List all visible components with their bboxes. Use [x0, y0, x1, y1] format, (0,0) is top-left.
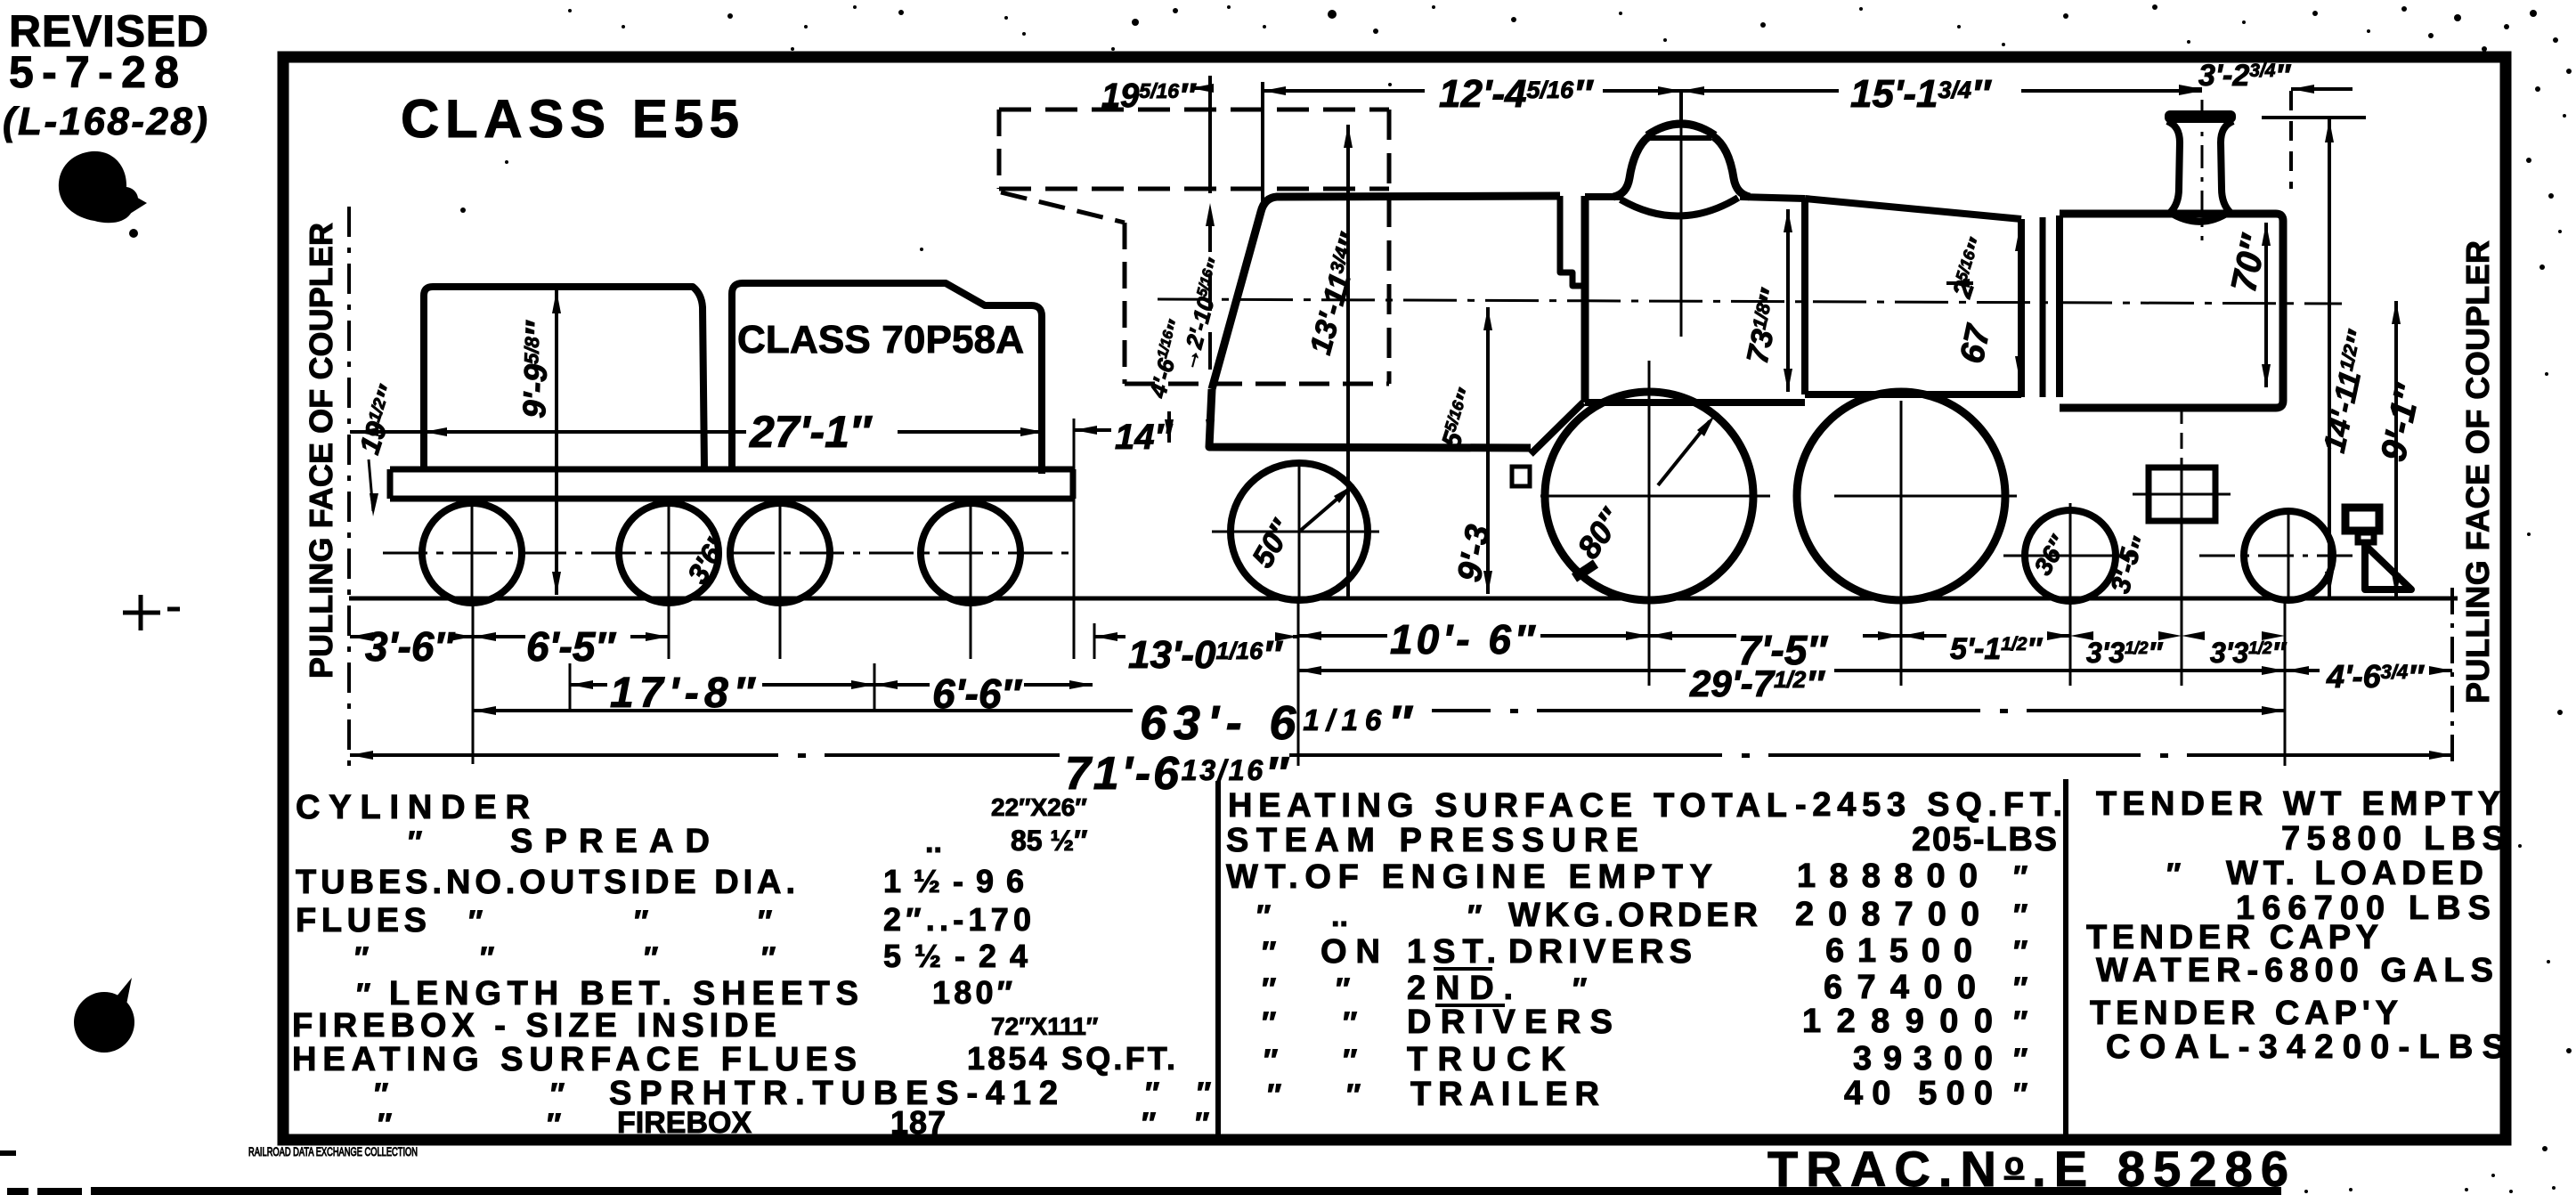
svg-text:WT.OF ENGINE EMPTY: WT.OF ENGINE EMPTY: [1226, 858, 1712, 896]
svg-text:1ST.: 1ST.: [1407, 933, 1496, 971]
scan speckle: [1663, 38, 1667, 42]
boiler bottom: [1805, 391, 2021, 398]
scan speckle: [853, 5, 857, 9]
row: 3-6 / 6-5 / 13-0 1/16: [350, 635, 365, 638]
smokebox outline: [2060, 214, 2283, 408]
table divider line 1: [1215, 781, 1221, 1140]
svg-text:36″: 36″: [2028, 531, 2073, 580]
svg-text:″: ″: [374, 1077, 388, 1111]
scan speckle: [2566, 69, 2572, 74]
tender body box 1: [424, 287, 704, 469]
extension line x=640: [569, 663, 572, 712]
scan speckle: [2152, 4, 2158, 10]
svg-text:TRAILER: TRAILER: [1410, 1076, 1599, 1113]
svg-text:″: ″: [2166, 858, 2181, 891]
svg-text:13'-01/16″: 13'-01/16″: [1128, 633, 1283, 677]
steam dome: [1613, 136, 1649, 197]
tapered boiler course top: [1805, 199, 2021, 219]
scan speckle: [2563, 114, 2566, 118]
svg-text:PULLING FACE OF COUPLER: PULLING FACE OF COUPLER: [303, 223, 339, 679]
svg-text:128900: 128900: [1802, 1003, 1993, 1040]
scan speckle: [1511, 17, 1516, 22]
driver wheel D2 80in: [1797, 392, 2005, 600]
svg-text:″: ″: [2013, 1005, 2027, 1039]
scan speckle: [2002, 43, 2005, 46]
svg-text:DRIVERS: DRIVERS: [1407, 1004, 1613, 1041]
extension line x=531: [472, 602, 475, 764]
svg-text:TENDER WT EMPTY: TENDER WT EMPTY: [2096, 785, 2500, 823]
tender wheel center line: [383, 552, 1077, 555]
svg-text:″: ″: [378, 1108, 392, 1142]
scan speckle: [1373, 28, 1378, 34]
scan speckle: [1432, 5, 1435, 9]
dome centerline: [1680, 119, 1683, 337]
svg-text:TRAC.No.E 85286: TRAC.No.E 85286: [1767, 1141, 2288, 1195]
svg-text:HEATING SURFACE FLUES: HEATING SURFACE FLUES: [292, 1041, 857, 1078]
svg-text:80″: 80″: [1570, 501, 1629, 565]
svg-text:14'-111/2″: 14'-111/2″: [2318, 327, 2377, 456]
smoke stack: [2165, 110, 2236, 123]
running board step to firebox: [1531, 402, 1583, 454]
scan speckle: [2312, 11, 2318, 16]
scan speckle: [1957, 25, 1961, 28]
scan speckle: [2401, 6, 2407, 12]
svg-text:″: ″: [2013, 935, 2027, 969]
ext line at cab rear slope top: [1208, 76, 1212, 156]
extension line x=2566: [2284, 602, 2287, 766]
scan speckle: [1388, 83, 1392, 86]
dim line dash-dot break: [2141, 751, 2187, 760]
svg-text:50″: 50″: [1246, 514, 1300, 573]
stack top ext line: [2262, 116, 2366, 119]
scan speckle: [2547, 960, 2550, 963]
scan speckle: [2063, 13, 2068, 19]
clearance taper dashed: [1001, 192, 1125, 223]
svg-text:″: ″: [634, 905, 648, 939]
svg-text:FIREBOX: FIREBOX: [617, 1106, 752, 1140]
svg-text:3'31/2″: 3'31/2″: [2210, 637, 2288, 669]
scan speckle: [505, 160, 508, 164]
tender wheel W3: [730, 503, 830, 603]
scan speckle: [1132, 19, 1139, 26]
dim 13ft-11 3/4 vertical: [1346, 125, 1350, 598]
scan speckle: [1004, 16, 1008, 20]
svg-text:71'-613/16″: 71'-613/16″: [1065, 748, 1289, 800]
pilot truck wheel 50in: [1231, 463, 1368, 600]
scan speckle: [2527, 532, 2531, 536]
underline for 1ST and 2ND: [1434, 967, 1492, 971]
scan speckle: [1328, 10, 1337, 19]
svg-text:TENDER CAPY: TENDER CAPY: [2086, 919, 2378, 956]
svg-text:-2453 SQ.FT.: -2453 SQ.FT.: [1795, 786, 2062, 824]
scan speckle: [2553, 37, 2558, 43]
stack centerline: [2201, 100, 2204, 240]
svg-text:15'-13/4″: 15'-13/4″: [1850, 72, 1992, 116]
dim 73 1/8 vertical: [1786, 209, 1790, 392]
svg-text:″: ″: [1256, 899, 1271, 933]
loco coupler face line (right): [2450, 588, 2454, 768]
scan speckle: [2465, 1188, 2468, 1191]
svg-text:55/16″: 55/16″: [1436, 386, 1483, 452]
svg-text:FLUES: FLUES: [296, 902, 427, 939]
svg-text:5'-11/2″: 5'-11/2″: [1950, 632, 2043, 666]
registration cross left margin: [123, 611, 160, 615]
svg-text:(L-168-28): (L-168-28): [3, 100, 207, 143]
border frame of drawing: [283, 57, 2506, 1140]
clearance pedestal dashed: [1123, 223, 1127, 384]
extension line x=1852: [1648, 602, 1651, 686]
tender body box 2 (CLASS 70P58A): [732, 283, 1042, 474]
scan speckle: [804, 25, 808, 28]
scan speckle: [2454, 14, 2461, 21]
80in radius arrow: [1658, 421, 1710, 485]
row: loco 10-6 / 7-5 / 5-1 1/2 / 3-3 1/2 x2: [1298, 634, 1387, 638]
svg-text:63'- 61/16″: 63'- 61/16″: [1140, 696, 1413, 750]
scan speckle: [1022, 32, 1026, 36]
svg-text:″: ″: [1262, 936, 1276, 970]
svg-text:COAL-34200-LBS: COAL-34200-LBS: [2106, 1028, 2505, 1066]
scan speckle: [2535, 86, 2540, 92]
svg-text:″: ″: [1467, 899, 1482, 933]
svg-text:731/8″: 731/8″: [1741, 286, 1790, 367]
svg-text:5½-24: 5½-24: [883, 938, 1028, 974]
svg-text:205-LBS: 205-LBS: [1912, 821, 2057, 858]
firebox bottom: [1585, 399, 1805, 406]
svg-text:180″: 180″: [932, 974, 1012, 1011]
svg-text:″: ″: [1197, 1077, 1211, 1110]
table divider line 2: [2063, 779, 2068, 1140]
svg-text:10'- 6″: 10'- 6″: [1390, 616, 1536, 663]
scan speckle: [1263, 25, 1266, 28]
svg-text:1854 SQ.FT.: 1854 SQ.FT.: [967, 1040, 1175, 1077]
svg-text:″: ″: [1336, 972, 1350, 1006]
lead truck wheel: [2244, 511, 2333, 600]
svg-text:″: ″: [1142, 1107, 1156, 1141]
dim 2 5/16 and 67 vertical: [2018, 228, 2021, 379]
dim 9ft-9 5/8 vertical: [555, 290, 558, 595]
svg-text:25/16″: 25/16″: [1947, 235, 1995, 303]
svg-text:″: ″: [761, 941, 776, 975]
svg-text:TRUCK: TRUCK: [1407, 1041, 1566, 1078]
dim line dash-dot break: [1491, 706, 1537, 715]
tender coupler face line (left): [347, 207, 351, 768]
svg-text:″: ″: [2013, 1077, 2027, 1111]
extension line x=2450: [2181, 552, 2183, 686]
row: 71-6 13/16: [350, 753, 1060, 757]
scan speckle: [2518, 844, 2522, 848]
svg-text:STEAM PRESSURE: STEAM PRESSURE: [1226, 822, 1638, 859]
svg-text:22″X26″: 22″X26″: [991, 793, 1087, 821]
scan speckle: [2242, 20, 2246, 24]
extension line x=982: [874, 663, 876, 712]
dim 12ft 4 5/16: [1263, 89, 1425, 93]
50in radius arrow: [1299, 488, 1350, 532]
tender platform/frame: [390, 469, 1073, 499]
svg-text:208700: 208700: [1795, 896, 1979, 933]
svg-text:″: ″: [1264, 1044, 1278, 1077]
svg-text:40 500: 40 500: [1844, 1075, 1993, 1112]
scan speckle: [2552, 1186, 2556, 1190]
svg-text:FIREBOX - SIZE INSIDE: FIREBOX - SIZE INSIDE: [292, 1007, 776, 1045]
scan speckle: [2428, 33, 2434, 38]
svg-text:″: ″: [1343, 1044, 1357, 1077]
pilot step: [2345, 508, 2379, 531]
svg-text:WT. LOADED: WT. LOADED: [2226, 855, 2483, 892]
svg-text:CYLINDER: CYLINDER: [296, 789, 530, 826]
extension line x=1090: [970, 602, 972, 659]
scan speckle: [1173, 8, 1178, 13]
boiler top to dome: [1585, 193, 1622, 200]
svg-text:″: ″: [480, 941, 494, 975]
svg-text:29'-71/2″: 29'-71/2″: [1689, 663, 1825, 704]
tender wheel W4: [921, 503, 1020, 603]
svg-text:67400: 67400: [1824, 969, 1976, 1006]
smokebox ring joints: [2018, 219, 2025, 397]
svg-text:4'-63/4″: 4'-63/4″: [2326, 658, 2425, 695]
tender wheel W1: [422, 503, 522, 603]
scan speckle: [2542, 1146, 2548, 1151]
scan speckle: [2558, 230, 2562, 233]
scan speckle: [1760, 22, 1766, 28]
svg-text:DRIVERS: DRIVERS: [1508, 933, 1692, 971]
svg-text:13'-113/4″: 13'-113/4″: [1304, 229, 1369, 358]
svg-text:72″X111″: 72″X111″: [991, 1012, 1098, 1040]
svg-text:85 ½″: 85 ½″: [1011, 825, 1088, 857]
scan speckle: [2539, 264, 2545, 270]
dim 9ft-3 vertical: [1486, 307, 1490, 594]
svg-text:27'-1″: 27'-1″: [749, 407, 873, 457]
svg-text:9'-1″: 9'-1″: [2374, 379, 2428, 465]
ink blot top-left: [59, 151, 138, 223]
dim 9ft-1 vertical: [2394, 301, 2398, 597]
dim 27ft-1: [350, 430, 746, 434]
svg-text:RAILROAD DATA EXCHANGE COLLECT: RAILROAD DATA EXCHANGE COLLECTION: [248, 1145, 418, 1158]
scan speckle: [1619, 12, 1622, 15]
svg-text:″: ″: [1145, 1077, 1159, 1110]
svg-text:187: 187: [890, 1104, 946, 1141]
scan speckle: [2304, 1190, 2308, 1193]
svg-text:″: ″: [547, 1108, 561, 1142]
boiler centerline: [1158, 299, 2342, 304]
svg-text:6'-5″: 6'-5″: [526, 623, 616, 670]
svg-text:9'-95/8″: 9'-95/8″: [516, 320, 556, 419]
scan speckle: [2548, 193, 2554, 199]
svg-text:″: ″: [1262, 1006, 1276, 1040]
svg-text:2″..-170: 2″..-170: [883, 901, 1031, 938]
trailing wheel 36in: [2025, 510, 2116, 601]
svg-text:″: ″: [1572, 972, 1587, 1006]
scan speckle: [460, 207, 466, 213]
svg-text:CLASS E55: CLASS E55: [401, 89, 739, 149]
extension line x=2135: [1900, 602, 1903, 686]
svg-text:191/2″: 191/2″: [353, 381, 405, 458]
svg-text:″: ″: [2013, 971, 2027, 1005]
svg-text:3'-6″: 3'-6″: [365, 623, 455, 670]
firebox ring joint: [1801, 199, 1808, 394]
scan speckle: [2187, 40, 2190, 44]
row: 63-6 1/16: [473, 709, 1133, 712]
running board hanger box: [1512, 467, 1530, 486]
svg-text:..: ..: [925, 825, 942, 859]
clearance outline dashed rectangle: [999, 108, 1389, 112]
svg-text:″: ″: [1195, 1107, 1209, 1141]
svg-text:PULLING FACE OF COUPLER: PULLING FACE OF COUPLER: [2459, 240, 2496, 703]
scan speckle: [2491, 1174, 2495, 1177]
dim 70 smokebox vertical: [2264, 223, 2268, 387]
extension line x=1458: [1297, 602, 1300, 766]
scan speckle: [2509, 1190, 2513, 1193]
row: 4-6 3/4: [2286, 669, 2320, 672]
scan speckle: [2504, 24, 2509, 29]
scan speckle: [1227, 5, 1231, 9]
scan speckle: [1859, 7, 1863, 11]
scan speckle: [2530, 10, 2537, 17]
row: 29-7 1/2: [1298, 669, 1686, 672]
extension line x=876: [779, 602, 782, 659]
ink blot lower-left: [74, 992, 134, 1053]
row: 17-8 / 6-6: [570, 683, 607, 687]
svg-text:39300: 39300: [1853, 1040, 1993, 1077]
scan speckle: [622, 25, 625, 28]
journal box: [2149, 467, 2215, 521]
svg-text:″: ″: [1262, 972, 1276, 1006]
svg-text:″: ″: [408, 825, 422, 859]
svg-text:″: ″: [2013, 1043, 2027, 1077]
scan speckle: [2367, 29, 2370, 33]
rail line: [349, 597, 2458, 601]
scan speckle: [898, 10, 904, 15]
dim line dash-dot break: [1980, 706, 2027, 715]
bottom black bar: [7, 1188, 28, 1195]
tender wheel W2: [619, 503, 719, 603]
svg-text:″: ″: [2013, 898, 2027, 932]
scan speckle: [2526, 158, 2531, 163]
svg-text:3'-23/4″: 3'-23/4″: [2198, 59, 2291, 93]
svg-text:2ND.: 2ND.: [1407, 970, 1513, 1007]
extension line x=1229: [1093, 623, 1096, 659]
scan speckle: [2349, 1188, 2353, 1191]
dim 14ft-11 1/2 vertical: [2328, 119, 2331, 598]
svg-text:188800: 188800: [1797, 858, 1978, 895]
scan speckle: [791, 47, 794, 51]
loco cab outline: [1212, 196, 1560, 389]
extension line x=2325: [2069, 602, 2072, 686]
svg-text:1½-96: 1½-96: [883, 863, 1024, 899]
svg-text:ON: ON: [1321, 933, 1380, 971]
svg-text:WATER-6800 GALS: WATER-6800 GALS: [2096, 952, 2493, 989]
svg-text:″: ″: [758, 905, 772, 939]
svg-text:″: ″: [1346, 1078, 1361, 1112]
scan speckle: [568, 9, 572, 12]
svg-text:75800 LBS: 75800 LBS: [2281, 820, 2505, 858]
dim line dash-dot break: [1722, 751, 1768, 760]
svg-text:″: ″: [2013, 860, 2027, 894]
svg-text:″: ″: [1343, 1006, 1357, 1040]
scan speckle: [727, 13, 733, 19]
svg-text:WKG.ORDER: WKG.ORDER: [1508, 897, 1758, 934]
svg-text:″: ″: [550, 1077, 565, 1111]
svg-text:3'31/2″: 3'31/2″: [2086, 637, 2164, 669]
scan speckle: [1873, 52, 1876, 55]
svg-text:TUBES.NO.OUTSIDE DIA.: TUBES.NO.OUTSIDE DIA.: [296, 864, 795, 901]
cab front pipe: [1560, 196, 1585, 286]
svg-text:67: 67: [1954, 321, 1998, 367]
svg-text:61500: 61500: [1825, 932, 1972, 970]
dim 3ft 2 3/4: [2179, 85, 2202, 93]
scan speckle: [2566, 1048, 2572, 1053]
dim 14in gap: [1074, 428, 1111, 432]
scan speckle: [1111, 47, 1115, 51]
svg-text:SPREAD: SPREAD: [510, 823, 710, 860]
svg-text:HEATING SURFACE TOTAL: HEATING SURFACE TOTAL: [1228, 787, 1787, 825]
scan speckle: [2557, 710, 2563, 715]
svg-text:CLASS 70P58A: CLASS 70P58A: [737, 318, 1024, 362]
scan speckle: [2482, 46, 2487, 52]
extension line x=751: [668, 602, 670, 659]
svg-text:14″: 14″: [1115, 418, 1173, 457]
dim 15ft 1 3/4: [1681, 89, 1839, 93]
scan speckle: [2545, 372, 2548, 376]
dim line dash-dot break: [778, 751, 825, 760]
boiler shell arc behind dome skirt: [1621, 198, 1738, 216]
boiler top dome to firebox ring: [1740, 197, 1805, 199]
scan speckle: [920, 248, 923, 251]
svg-text:12'-45/16″: 12'-45/16″: [1439, 72, 1594, 116]
driver wheel D1 80in: [1545, 392, 1753, 600]
svg-text:″: ″: [354, 941, 369, 975]
svg-text:″: ″: [1267, 1078, 1281, 1112]
svg-text:TENDER CAP'Y: TENDER CAP'Y: [2090, 995, 2398, 1032]
svg-text:″: ″: [644, 941, 658, 975]
svg-text:″: ″: [468, 905, 483, 939]
svg-text:..: ..: [1331, 899, 1348, 933]
